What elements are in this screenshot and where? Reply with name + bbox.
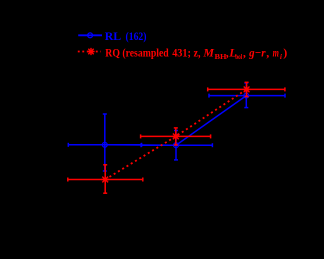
svg-text:m: m xyxy=(273,45,279,59)
svg-text:bol: bol xyxy=(235,52,242,61)
svg-text:): ) xyxy=(283,45,287,59)
svg-text:g−r: g−r xyxy=(248,45,266,59)
svg-text:,: , xyxy=(243,45,246,59)
svg-text:,: , xyxy=(266,45,269,59)
svg-text:M: M xyxy=(202,45,214,59)
svg-text:RQ (resampled: RQ (resampled xyxy=(105,45,169,59)
svg-text:RL: RL xyxy=(105,29,121,43)
svg-text:(162): (162) xyxy=(126,29,147,43)
svg-text:431; z,: 431; z, xyxy=(172,45,200,59)
